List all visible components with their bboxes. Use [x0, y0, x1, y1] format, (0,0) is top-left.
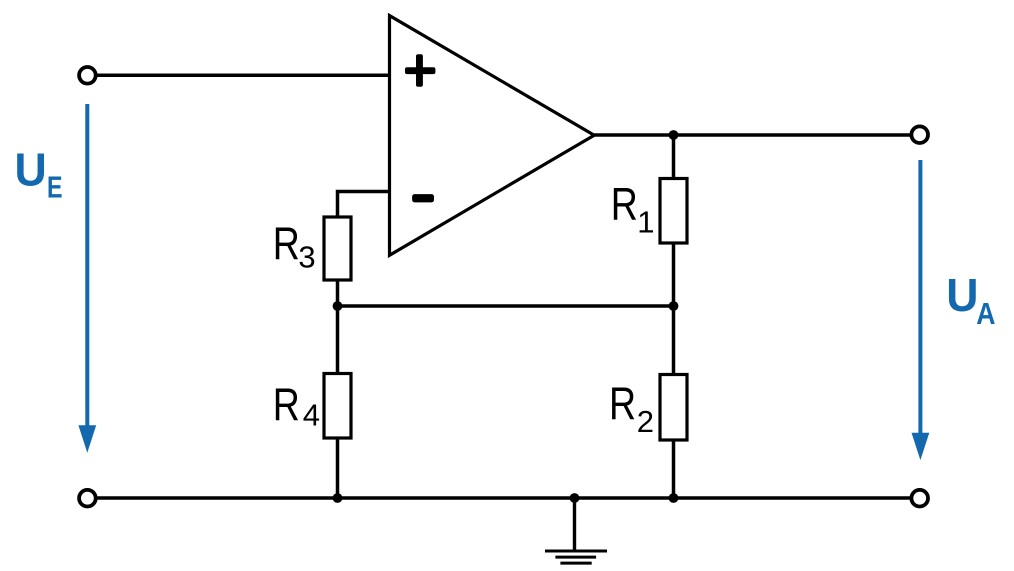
- junction bottom rail R4: [333, 493, 343, 503]
- junction bottom rail ground: [570, 493, 580, 503]
- wire: output from op-amp apex to right terminal: [594, 133, 912, 137]
- wire: output node down to R1 top: [672, 135, 676, 179]
- wire: middle node down to R2 top: [672, 306, 676, 375]
- op-amp minus sign: [412, 194, 434, 202]
- svg-text:4: 4: [303, 398, 320, 433]
- ground: [545, 498, 607, 563]
- resistor R1 body: [660, 179, 687, 244]
- U_E voltage arrow: [78, 104, 96, 453]
- svg-text:R: R: [609, 378, 636, 430]
- svg-text:R: R: [273, 379, 300, 431]
- wire: R3 bottom to middle node: [336, 280, 340, 307]
- svg-text:1: 1: [637, 204, 654, 239]
- resistor R4 body: [324, 374, 351, 439]
- svg-text:A: A: [976, 297, 995, 331]
- svg-text:U: U: [15, 144, 47, 196]
- wire: R4 bottom to bottom rail: [336, 438, 340, 498]
- svg-text:2: 2: [637, 404, 654, 439]
- wire: R1 bottom to middle node: [672, 243, 676, 307]
- wire: R2 bottom to bottom rail: [672, 440, 676, 498]
- wire: middle horizontal (node between R3/R4 and R1/R2): [338, 304, 674, 308]
- junction middle node left: [333, 301, 343, 311]
- wire: middle node down to R4 top: [336, 306, 340, 374]
- svg-text:R: R: [611, 178, 638, 230]
- op-amp U1 triangle: [390, 16, 595, 256]
- svg-text:U: U: [946, 269, 978, 321]
- terminal: input top-left: [79, 67, 96, 84]
- resistor R3 body: [324, 217, 351, 280]
- terminal: output top-right: [911, 126, 928, 143]
- resistor R2 body: [660, 375, 687, 441]
- wire: inverting input feedback (from triangle to R3 top): [338, 192, 391, 219]
- junction on output wire: [669, 130, 679, 140]
- op-amp plus sign: [405, 54, 435, 86]
- svg-text:3: 3: [298, 240, 315, 275]
- svg-text:R: R: [273, 218, 300, 270]
- wire: bottom rail: [96, 496, 912, 500]
- svg-text:E: E: [47, 169, 63, 204]
- junction bottom rail R2: [669, 493, 679, 503]
- wire: non-inverting input (top): [96, 74, 390, 78]
- terminal: bottom-right: [911, 490, 928, 507]
- junction middle node right: [669, 301, 679, 311]
- U_A voltage arrow: [912, 160, 930, 460]
- terminal: bottom-left: [79, 490, 96, 507]
